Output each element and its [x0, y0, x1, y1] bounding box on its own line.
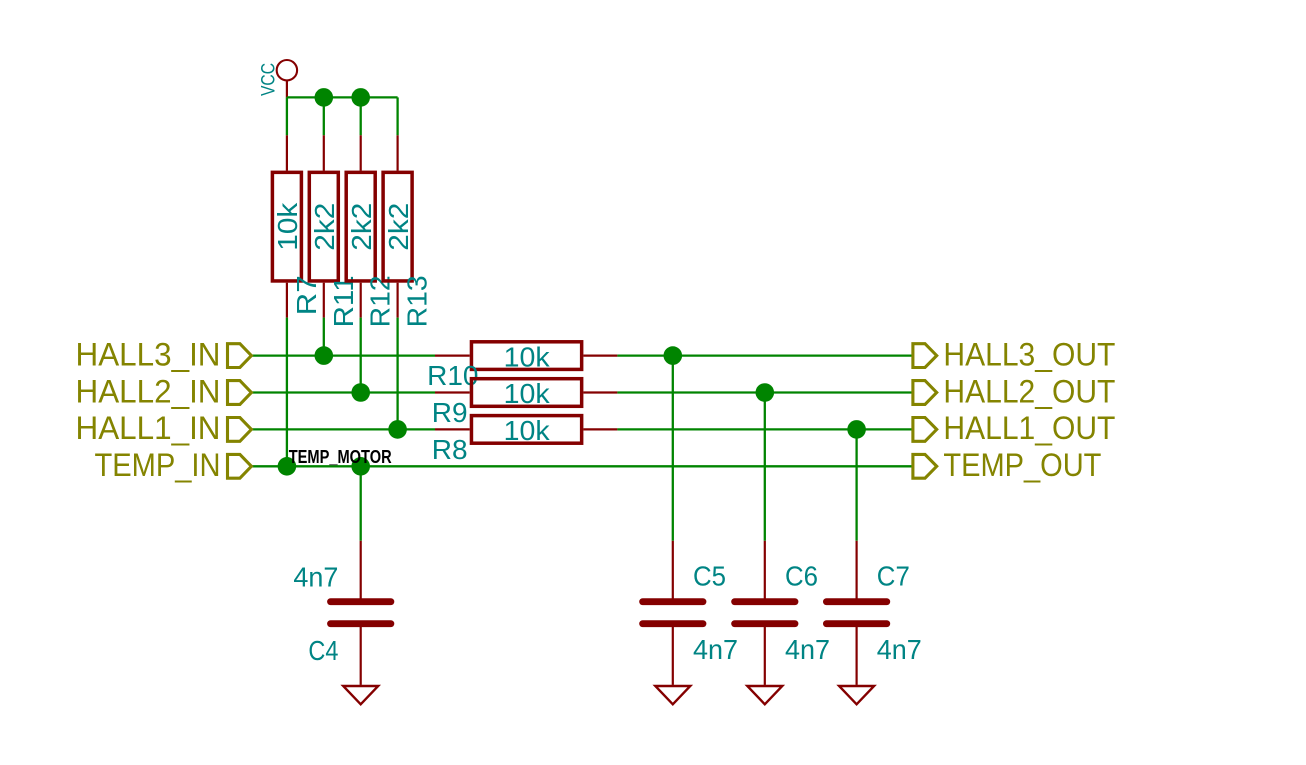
junction: [351, 383, 370, 402]
wire: [672, 356, 674, 541]
wire: [251, 465, 913, 467]
resistor R13: [383, 135, 433, 327]
wire: [764, 393, 766, 541]
capacitor C6: [735, 541, 830, 685]
junction: [664, 346, 683, 365]
svg-text:C4: C4: [308, 635, 338, 666]
svg-text:10k: 10k: [504, 341, 551, 372]
svg-text:R9: R9: [432, 397, 468, 428]
global label TEMP_OUT: [913, 447, 1102, 483]
junction: [847, 420, 866, 439]
wire: [396, 318, 398, 430]
svg-text:C6: C6: [785, 561, 818, 592]
wire: [286, 318, 288, 467]
global label HALL3_OUT: [913, 336, 1116, 372]
capacitor C5: [643, 541, 738, 685]
wire: [323, 97, 325, 135]
svg-text:R8: R8: [432, 434, 468, 465]
ground: [655, 686, 690, 704]
ground: [343, 686, 378, 704]
global label TEMP_IN: [95, 447, 252, 483]
junction: [315, 88, 334, 107]
resistor R10: [427, 341, 617, 391]
svg-text:4n7: 4n7: [785, 634, 830, 665]
wire: [360, 466, 362, 541]
svg-text:HALL1_IN: HALL1_IN: [76, 410, 221, 446]
wire: [617, 354, 913, 356]
svg-text:C7: C7: [877, 561, 910, 592]
svg-text:HALL2_OUT: HALL2_OUT: [943, 373, 1115, 409]
svg-text:4n7: 4n7: [293, 561, 338, 592]
junction: [351, 457, 370, 476]
global label HALL1_IN: [76, 410, 252, 446]
svg-text:VCC: VCC: [259, 63, 280, 96]
svg-text:TEMP_OUT: TEMP_OUT: [943, 447, 1101, 483]
svg-text:HALL3_OUT: HALL3_OUT: [943, 336, 1115, 372]
wire: [855, 429, 857, 540]
wire: [617, 428, 913, 430]
svg-text:TEMP_IN: TEMP_IN: [95, 447, 221, 483]
ground: [747, 686, 782, 704]
wire: [360, 97, 362, 135]
svg-text:R11: R11: [328, 275, 359, 327]
power flag VCC: [259, 60, 297, 97]
svg-text:4n7: 4n7: [693, 634, 738, 665]
svg-text:10k: 10k: [504, 378, 551, 409]
global label HALL2_IN: [76, 373, 252, 409]
resistor R9: [432, 378, 618, 428]
wire: [286, 97, 288, 135]
wire: [323, 318, 325, 356]
global label HALL3_IN: [76, 336, 252, 372]
capacitor C4: [293, 541, 391, 685]
svg-text:2k2: 2k2: [309, 203, 340, 251]
junction: [315, 346, 334, 365]
svg-text:C5: C5: [693, 561, 726, 592]
svg-text:HALL3_IN: HALL3_IN: [76, 336, 221, 372]
svg-text:10k: 10k: [504, 415, 551, 446]
capacitor C7: [826, 541, 921, 685]
resistor R11: [309, 135, 359, 327]
svg-text:2k2: 2k2: [346, 203, 377, 251]
junction: [351, 88, 370, 107]
svg-text:R12: R12: [365, 275, 396, 327]
wire: [251, 428, 435, 430]
svg-text:TEMP_MOTOR: TEMP_MOTOR: [289, 447, 392, 467]
ground: [839, 686, 874, 704]
svg-text:HALL2_IN: HALL2_IN: [76, 373, 221, 409]
svg-text:2k2: 2k2: [383, 203, 414, 251]
wire: [287, 96, 398, 98]
junction: [388, 420, 407, 439]
svg-text:10k: 10k: [272, 202, 303, 251]
wire: [251, 391, 435, 393]
junction: [756, 383, 775, 402]
resistor R12: [346, 135, 396, 327]
local label TEMP_MOTOR: [289, 447, 392, 467]
global label HALL2_OUT: [913, 373, 1116, 409]
svg-text:HALL1_OUT: HALL1_OUT: [943, 410, 1115, 446]
junction: [278, 457, 297, 476]
resistor R8: [432, 415, 618, 465]
svg-text:4n7: 4n7: [877, 634, 922, 665]
wire: [617, 391, 913, 393]
wire: [251, 354, 435, 356]
svg-text:R13: R13: [402, 275, 433, 327]
global label HALL1_OUT: [913, 410, 1116, 446]
resistor R7: [272, 135, 322, 317]
wire: [360, 318, 362, 393]
wire: [396, 97, 398, 135]
